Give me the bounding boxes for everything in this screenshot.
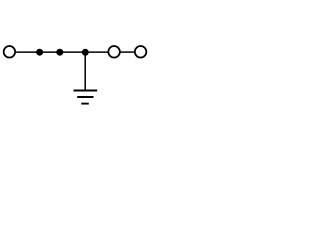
- node junction dot 2: [56, 49, 63, 56]
- node junction dot (ground tap): [82, 49, 89, 56]
- terminal clamping point (left open circle): [4, 46, 16, 58]
- wire (main horizontal bus): [16, 51, 108, 53]
- wire (vertical to ground): [84, 52, 86, 90]
- terminal clamping point (middle open circle): [108, 46, 120, 58]
- wire (between right circles): [120, 51, 134, 53]
- ground (earth symbol): [74, 91, 98, 104]
- node junction dot 1: [36, 49, 43, 56]
- terminal clamping point (right open circle): [135, 46, 147, 58]
